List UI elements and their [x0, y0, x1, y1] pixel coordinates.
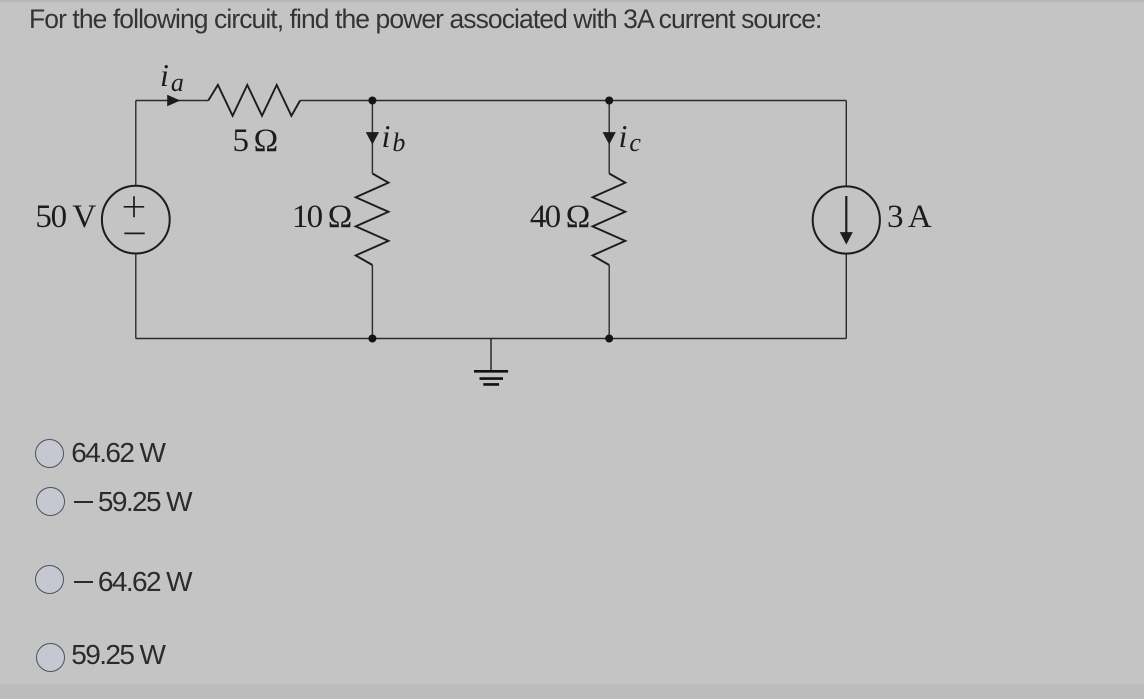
- option B text -59.25 W: [74, 488, 191, 516]
- title: [29, 2, 821, 36]
- option C radio: [35, 565, 64, 594]
- option B radio: [36, 487, 65, 516]
- option D text 59.25 W: [71, 641, 164, 669]
- wire 40-ohm branch (node C down to resistor and resistor to bottom node): [608, 101, 610, 339]
- wire bottom (left corner to right corner through ground tap): [136, 338, 847, 340]
- wire 10-ohm branch (node B down to resistor and resistor to bottom node): [371, 101, 373, 339]
- resistor R3 40 ohm: [593, 174, 626, 266]
- svg-text:3 A: 3 A: [887, 199, 932, 235]
- svg-text:50 V: 50 V: [35, 199, 96, 235]
- voltage source V1: [102, 186, 170, 254]
- bottom band: [0, 684, 1144, 699]
- svg-text:10 Ω: 10 Ω: [292, 199, 351, 235]
- svg-text:ic: ic: [619, 118, 642, 157]
- svg-text:5 Ω: 5 Ω: [233, 123, 277, 159]
- node B dot (top of 10-ohm branch): [368, 97, 376, 105]
- wire right (top corner to current source and source to bottom corner): [845, 101, 847, 339]
- current arrow ia: [167, 95, 180, 106]
- resistor R2 10 ohm: [356, 174, 389, 266]
- top band: [0, 0, 1144, 2]
- current arrow ic: [603, 132, 616, 145]
- node C dot (top of 40-ohm branch): [605, 97, 613, 105]
- wire top-left (source top corner to 5-ohm resistor, carries ia arrow): [136, 100, 209, 102]
- svg-text:ia: ia: [160, 57, 184, 97]
- wire top-right (5-ohm resistor to node B, node C, right corner): [300, 100, 846, 102]
- svg-text:ib: ib: [382, 118, 406, 157]
- option D radio: [36, 643, 65, 672]
- current source I1: [813, 186, 880, 253]
- option A text 64.62 W: [71, 439, 164, 467]
- node dot bottom of 40-ohm branch: [605, 335, 613, 343]
- option A radio: [35, 439, 64, 468]
- circuit schematic: [0, 0, 1144, 430]
- svg-text:40 Ω: 40 Ω: [530, 199, 589, 235]
- ground: [474, 339, 508, 385]
- option C text -64.62 W: [74, 568, 191, 596]
- wire left (corner to voltage source and source to bottom corner): [135, 101, 137, 339]
- node dot bottom of 10-ohm branch: [368, 335, 376, 343]
- current arrow ib: [366, 132, 379, 145]
- resistor R1 5 ohm: [208, 85, 300, 116]
